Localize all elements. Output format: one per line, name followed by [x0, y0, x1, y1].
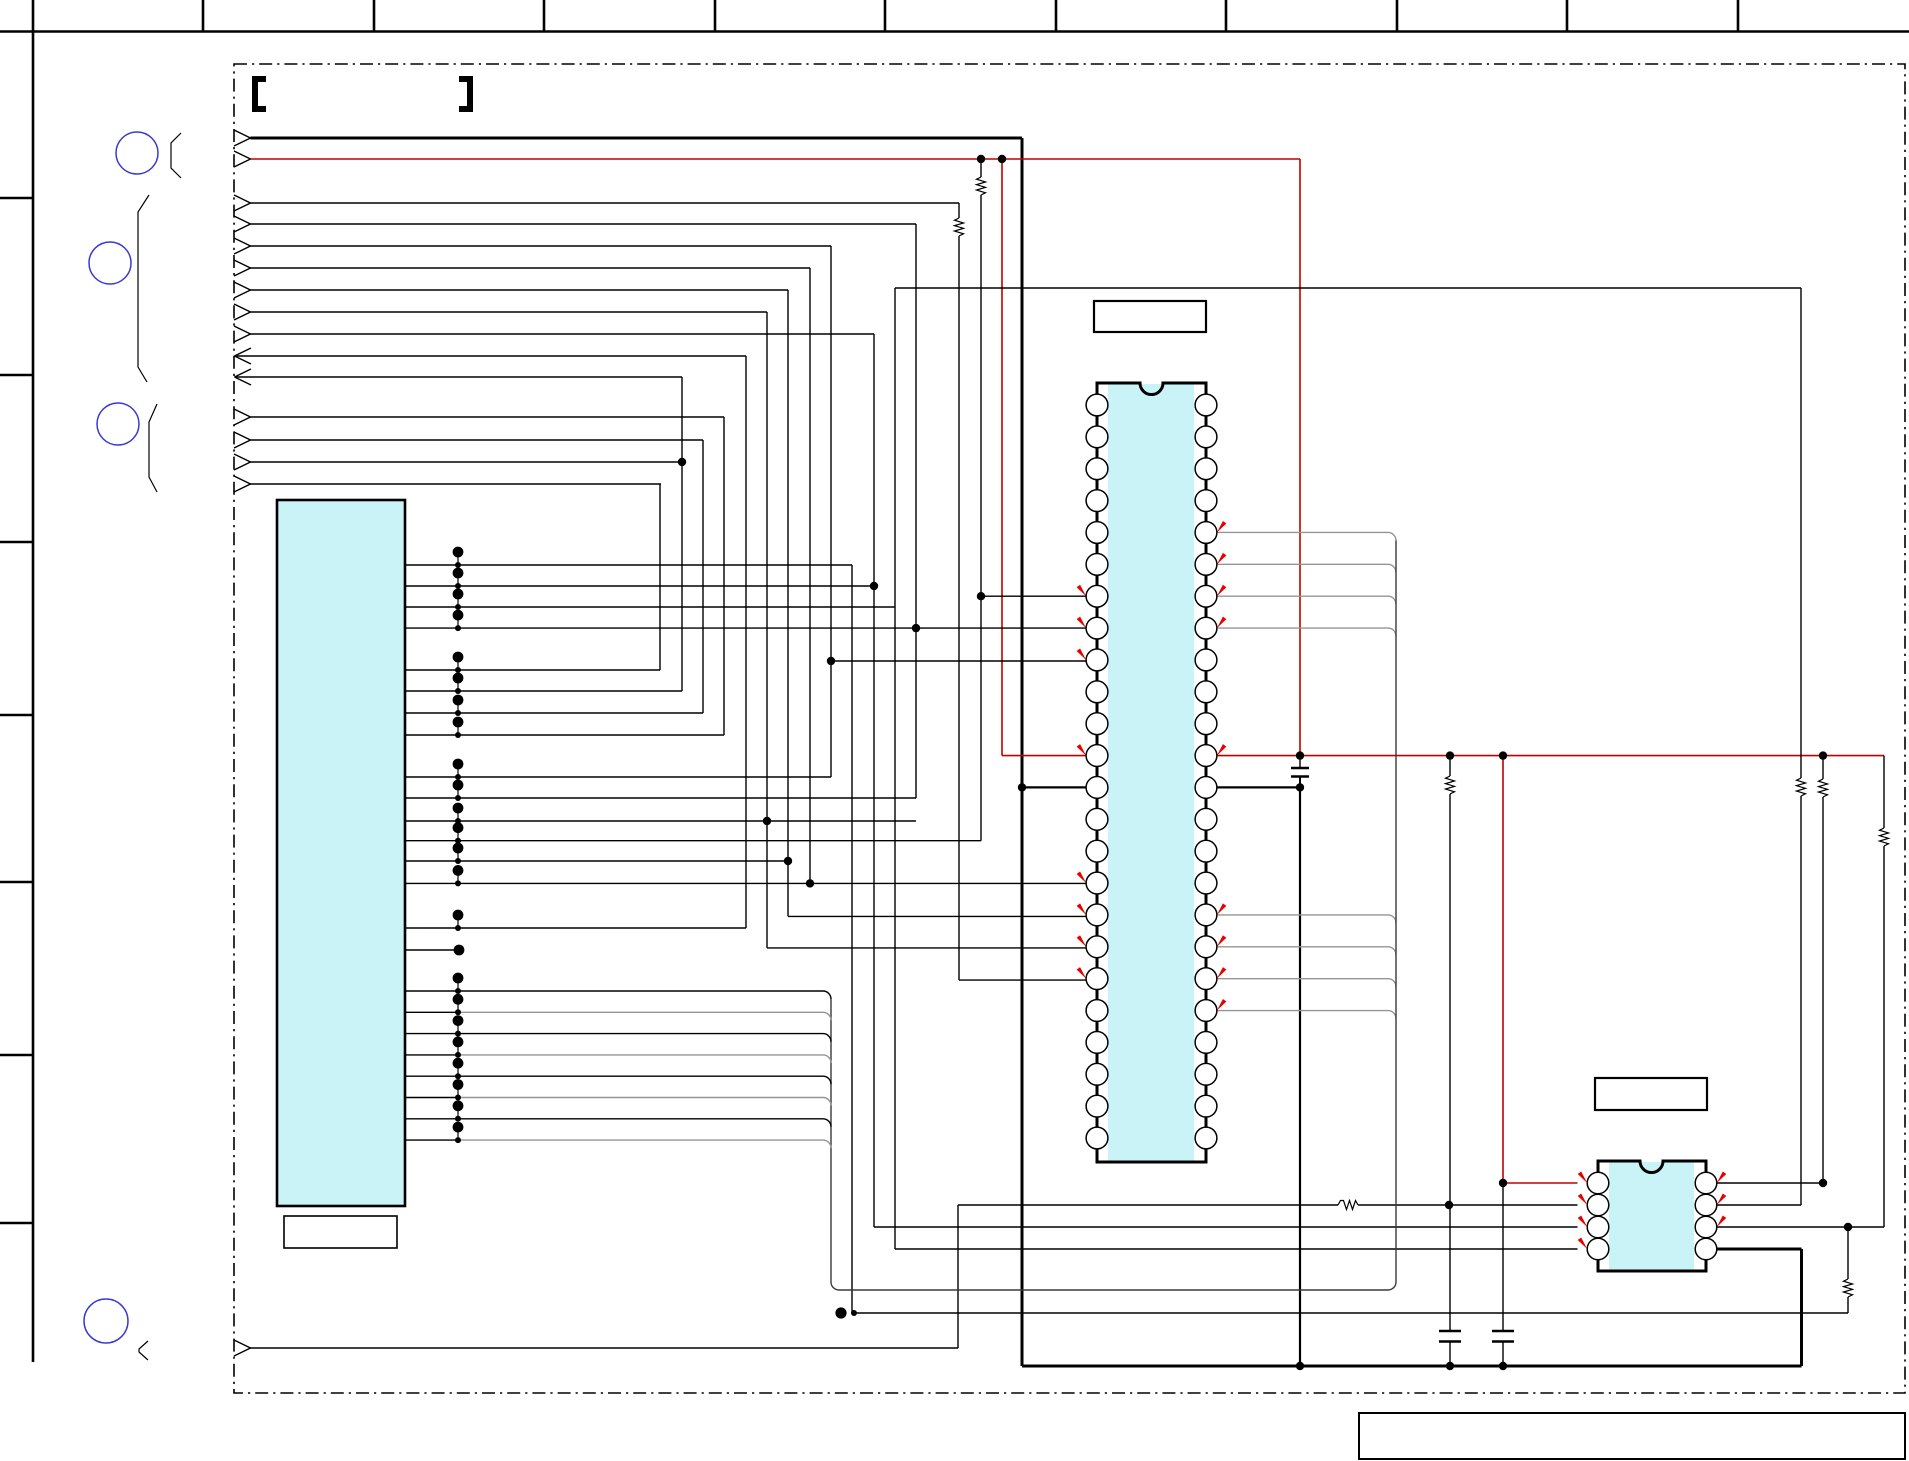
wire red top rail	[251, 158, 1301, 160]
pair CN row4	[453, 610, 464, 621]
junction at 1300,787.4	[1296, 783, 1304, 791]
wire thick bottom rail	[1022, 1365, 1802, 1368]
wire net3 vertical lower	[958, 236, 960, 980]
input arrow IN5	[234, 238, 251, 246]
junction at 1002,159	[998, 155, 1006, 163]
wire red tap R1	[980, 159, 982, 177]
junction at 1450,755.6	[1446, 751, 1454, 759]
resistor R108	[1797, 778, 1806, 796]
input arrow IN10	[234, 409, 251, 417]
wire net8 to IC1 pin18	[767, 947, 1087, 949]
right lenticular bracket of blanked title	[459, 79, 470, 109]
input arrow IN8	[234, 304, 251, 312]
pair CN row12	[453, 803, 464, 814]
shield terminal small dot	[851, 1310, 857, 1316]
wire CN row18	[405, 990, 458, 992]
wire CN row22	[405, 1075, 458, 1077]
pair CN row3	[453, 589, 464, 600]
wire R105 tap	[1822, 756, 1824, 779]
wire net10 horizontal	[251, 416, 725, 418]
wire CN row8	[405, 712, 703, 714]
brace for circle A	[171, 133, 181, 178]
wire CN row12	[405, 820, 916, 822]
resistor R106	[1880, 828, 1889, 846]
input arrow IN4	[234, 216, 251, 224]
wire x1848 upper stub	[1847, 1227, 1849, 1279]
junction at 1022,787.4	[1018, 783, 1026, 791]
wire grey IC1 pin8 stub	[1217, 627, 1389, 629]
wire net3 to IC1 pin19	[959, 979, 1087, 981]
pair CN row8	[453, 695, 464, 706]
wire net8 vertical	[766, 312, 768, 948]
wire IC2 pin2 right segment	[1358, 1204, 1578, 1206]
input arrow IN1	[234, 130, 251, 138]
junction at 1848,1227	[1844, 1223, 1852, 1231]
U102 pin circles	[1587, 1172, 1609, 1194]
wire red mid rail	[1217, 755, 1885, 757]
junction at 981,596.2	[977, 592, 985, 600]
input arrow IN11	[234, 432, 251, 440]
wire IC1 pin9 stub	[831, 660, 1087, 662]
capacitor C101	[1291, 767, 1309, 769]
junction at 1823,755.6	[1819, 751, 1827, 759]
wire CN row16	[405, 927, 746, 929]
wire thick top rail	[251, 137, 1023, 140]
wire thick riser to IC2 pin8	[1800, 1249, 1803, 1366]
junction at 1503,1366	[1499, 1362, 1507, 1370]
resistor R101	[977, 177, 986, 195]
wire x981 vertical	[980, 195, 982, 841]
wire grey IC1 pin5 stub	[1217, 531, 1389, 533]
wire x1884 vertical	[1883, 846, 1885, 1227]
op-amp U102 body	[1598, 1161, 1706, 1271]
wire net7 horizontal	[251, 289, 789, 291]
wire grey IC1 pin7 stub	[1217, 595, 1389, 597]
wire net9 vertical	[873, 334, 875, 1227]
pair CN row1	[453, 547, 464, 558]
input arrow IN7	[234, 282, 251, 290]
brace for circle B	[138, 195, 149, 382]
wire net4 vertical	[915, 224, 917, 798]
wire grey IC1 pin18 stub	[1217, 946, 1389, 948]
output arrow OUT2	[235, 369, 252, 377]
wire net5 vertical	[830, 246, 832, 777]
wire red vertical	[1001, 159, 1003, 756]
resistor R102	[1338, 1201, 1358, 1210]
wire CN row10	[405, 776, 831, 778]
U101 pin direction arrows	[1077, 585, 1087, 597]
wire IC2 pin6 stub	[1717, 1204, 1802, 1206]
wire CN row17 stub	[405, 949, 454, 951]
wire grey IC1 pin6 stub	[1217, 563, 1389, 565]
wire CN row1	[405, 564, 852, 566]
wire net9 horizontal	[251, 333, 875, 335]
wire CN row24	[405, 1118, 458, 1120]
pair CN row6	[453, 652, 464, 663]
wire thick vertical trunk	[1021, 138, 1024, 1366]
pair CN row11	[453, 780, 464, 791]
wire net-out2 horizontal	[235, 376, 683, 378]
junction at 1449,1205	[1445, 1201, 1453, 1209]
wire C103 lower stub	[1502, 1342, 1504, 1367]
wire red IC2 pin1 stub	[1503, 1182, 1578, 1184]
wire x852 vertical	[851, 565, 853, 1313]
wire red corner drop	[1883, 756, 1885, 828]
input arrow IN12	[234, 454, 251, 462]
connector CN101 label box	[284, 1216, 397, 1248]
wire net5 horizontal	[251, 245, 832, 247]
wire CN row20	[405, 1033, 458, 1035]
pair CN row24	[453, 1100, 464, 1111]
wire x1450 vertical	[1449, 794, 1451, 1331]
wire grey bus bottom rail	[839, 1289, 1388, 1291]
op-amp U101 body	[1097, 383, 1206, 1162]
wire C101 lower stub	[1299, 777, 1301, 788]
capacitor C102	[1439, 1330, 1461, 1333]
junction at 1823,1183	[1819, 1179, 1827, 1187]
pair CN row21	[453, 1037, 464, 1048]
input arrow IN13	[234, 476, 251, 484]
junction at 874,586	[870, 582, 878, 590]
wire red drop to IC2 pin1	[1502, 756, 1504, 1183]
junction at 1503,755.6	[1499, 751, 1507, 759]
pair CN row16	[453, 910, 464, 921]
U101 label box	[1094, 301, 1206, 332]
wire CN row2	[405, 585, 874, 587]
terminal dot CN row17	[454, 945, 465, 956]
wire grey bus vertical left	[830, 999, 832, 1282]
wire CN row15 to IC1 pin16	[405, 882, 1087, 884]
wire IC1 pin13 stub	[1022, 786, 1087, 788]
pair CN row2	[453, 568, 464, 579]
pair CN row9	[453, 717, 464, 728]
wire red drop x1300	[1299, 159, 1301, 756]
wire net-out1 horizontal	[235, 355, 747, 357]
page reference circle C	[97, 403, 139, 445]
wire net6 horizontal	[251, 267, 811, 269]
wire CN row6	[405, 669, 660, 671]
wire x1801 drop lower	[1800, 796, 1802, 1205]
wire net13 horizontal	[251, 483, 662, 485]
wire IC2 pin7 stub	[1717, 1182, 1824, 1184]
input arrow IN3	[234, 195, 251, 203]
wire C102 lower stub	[1449, 1342, 1451, 1367]
wire net9 to IC2 pin3	[874, 1226, 1578, 1228]
wire thick IC2 pin8 stub	[1717, 1248, 1802, 1251]
wire net3 vertical upper	[958, 203, 960, 218]
wire x1848 lower stub	[1847, 1297, 1849, 1313]
input arrow IN9	[234, 326, 251, 334]
junction at 981,159	[977, 155, 985, 163]
pair CN row20	[453, 1015, 464, 1026]
pair CN row22	[453, 1058, 464, 1069]
wire to IC2 pin4	[895, 1248, 1578, 1250]
wire x1503 black mid	[1502, 1183, 1504, 1331]
title block box	[1359, 1413, 1905, 1459]
wire x1300 ground drop	[1299, 787, 1301, 1366]
resistor R103	[955, 218, 964, 236]
wire CN row9	[405, 734, 724, 736]
wire grey bus bottom arc left	[831, 1282, 839, 1290]
wire net11 horizontal	[251, 439, 704, 441]
wire net3 horizontal	[251, 202, 960, 204]
wire CN row3	[405, 606, 895, 608]
page reference circle A	[116, 132, 158, 174]
wire grey bus bottom arc right	[1388, 1282, 1396, 1290]
brace for circle C	[149, 404, 157, 492]
wire IC2 pin2 left segment	[958, 1204, 1338, 1206]
wire CN row11	[405, 797, 916, 799]
wire net14 vertical	[957, 1205, 959, 1348]
wire x895 vertical	[894, 288, 896, 1249]
wire net11 vertical	[702, 440, 704, 713]
brace for circle D	[139, 1341, 148, 1360]
wire grey IC1 pin17 stub	[1217, 914, 1389, 916]
junction at 788,861	[784, 857, 792, 865]
wire C101 upper stub	[1299, 756, 1301, 768]
pair CN row18	[453, 973, 464, 984]
wire net8 horizontal	[251, 311, 768, 313]
wire net6 vertical	[809, 268, 811, 883]
pair CN row19	[453, 994, 464, 1005]
U102 label box	[1595, 1078, 1707, 1110]
wire IC2 pin5 stub	[1717, 1226, 1885, 1228]
wire CN row25	[405, 1139, 458, 1141]
wire CN row19	[405, 1011, 458, 1013]
wire net12 horizontal	[251, 461, 683, 463]
wire grey IC1 pin20 stub	[1217, 1010, 1389, 1012]
output arrow OUT1	[235, 348, 252, 356]
junction at 810,883.4	[806, 879, 814, 887]
resistor R105	[1819, 779, 1828, 797]
wire net-out2 vertical	[681, 377, 683, 691]
junction at 767,821	[763, 817, 771, 825]
junction at 1450,1366	[1446, 1362, 1454, 1370]
shield terminal big dot	[835, 1307, 846, 1318]
resistor R104	[1446, 776, 1455, 794]
wire net10 vertical	[723, 417, 725, 735]
junction at 1300,755.6	[1296, 751, 1304, 759]
wire net4 horizontal	[251, 223, 917, 225]
wire x1823 vertical	[1822, 797, 1824, 1183]
input arrow IN14	[234, 1340, 251, 1348]
pair CN row10	[453, 759, 464, 770]
resistor R107	[1844, 1279, 1853, 1297]
input arrow IN6	[234, 260, 251, 268]
junction at 1300,1366	[1296, 1362, 1304, 1370]
wire CN row14	[405, 860, 788, 862]
wire net7 to IC1 pin17	[788, 915, 1087, 917]
junction at 916,628.1	[912, 624, 920, 632]
page reference circle D	[84, 1299, 128, 1343]
wire CN row23	[405, 1097, 458, 1099]
pair CN row7	[453, 673, 464, 684]
wire CN row21	[405, 1054, 458, 1056]
pair CN row14	[453, 843, 464, 854]
wire IC1 pin13 right stub	[1217, 786, 1301, 788]
left lenticular bracket of blanked title	[255, 79, 266, 109]
wire grey IC1 pin19 stub	[1217, 978, 1389, 980]
wire net13 vertical	[659, 484, 661, 670]
wire red IC1 pin12 stub	[1002, 755, 1087, 757]
pair CN row13	[453, 822, 464, 833]
U102 pin direction arrows	[1578, 1172, 1588, 1184]
input arrow IN2	[234, 151, 251, 159]
connector CN101 body	[277, 500, 405, 1206]
pair CN row15	[453, 865, 464, 876]
page reference circle B	[89, 242, 131, 284]
junction at 1503,1183	[1499, 1179, 1507, 1187]
capacitor C103	[1492, 1330, 1514, 1333]
wire CN row7	[405, 690, 682, 692]
pair CN row23	[453, 1079, 464, 1090]
wire x1801 drop upper	[1800, 288, 1802, 778]
junction at 831,661	[827, 657, 835, 665]
wire IC1 pin7 stub	[981, 595, 1087, 597]
pair CN row25	[453, 1122, 464, 1133]
wire CN row13	[405, 840, 981, 842]
wire shield rail y1313	[854, 1312, 1848, 1314]
wire net14 horizontal	[251, 1347, 959, 1349]
wire R104 tap	[1449, 756, 1451, 776]
wire y288 rail	[895, 287, 1801, 289]
wire CN row4 to IC1 pin8	[405, 627, 1087, 629]
wire net-out1 vertical	[745, 356, 747, 928]
wire grey bus vertical right	[1395, 540, 1397, 1282]
junction at 682,462	[678, 458, 686, 466]
wire net7 vertical	[787, 290, 789, 916]
U101 pin circles	[1086, 394, 1108, 416]
